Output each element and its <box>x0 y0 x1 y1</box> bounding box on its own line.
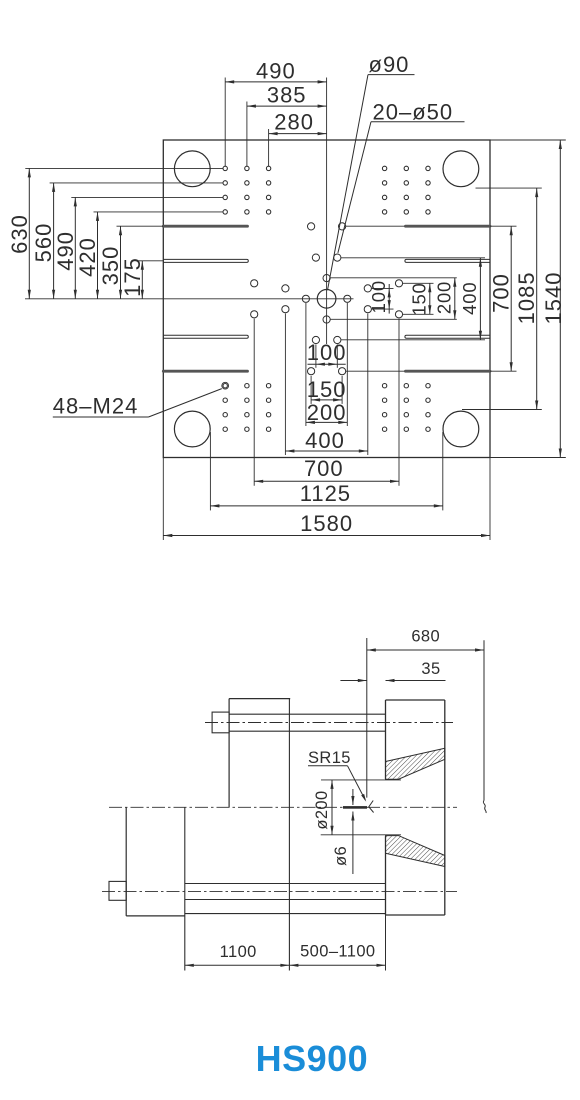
svg-text:175: 175 <box>120 257 145 297</box>
dim 700 bottom <box>254 480 399 482</box>
ejector hole pairs at 350mm <box>308 223 315 230</box>
front face extension to dim <box>385 915 387 971</box>
dim 1540 right <box>559 140 561 458</box>
upper tie-bar nut <box>212 712 229 733</box>
leaders 200 right dim <box>330 277 457 279</box>
tie-bar hole bottom-right <box>443 411 479 447</box>
svg-text:385: 385 <box>267 83 307 108</box>
center hole dia90 <box>317 290 336 309</box>
tie-bar hole top-left <box>174 151 210 187</box>
vertical centerline / extension <box>326 78 328 345</box>
svg-text:420: 420 <box>75 237 100 277</box>
dim 35 <box>340 680 366 682</box>
svg-text:1125: 1125 <box>300 481 351 506</box>
lower tie-bar rod <box>185 883 386 885</box>
dim 175 left <box>141 261 143 299</box>
svg-text:1540: 1540 <box>541 272 566 325</box>
dim 630 left <box>28 168 30 298</box>
dim 1085 right <box>536 188 538 409</box>
row leader y=226.2 <box>117 225 164 227</box>
svg-text:48–M24: 48–M24 <box>53 394 139 419</box>
dim 680 <box>367 649 484 651</box>
nozzle bore section upper (hatched) <box>386 748 445 779</box>
svg-text:150: 150 <box>307 377 347 402</box>
ext line plate bottom right <box>490 457 566 459</box>
row leader y=168.4 <box>25 167 223 169</box>
extension line col3 <box>268 129 270 166</box>
M24 tapped hole symbol (leader target) <box>222 382 229 389</box>
leader SR15 <box>348 766 366 800</box>
row leader y=260.8 <box>138 260 163 262</box>
svg-text:1100: 1100 <box>220 943 257 961</box>
ext line tiebar top right <box>476 187 542 189</box>
svg-text:490: 490 <box>256 59 296 84</box>
svg-text:280: 280 <box>274 110 314 135</box>
T-slot thick left lower <box>163 370 247 373</box>
dim 490 top <box>225 81 326 83</box>
upper tie-bar rod <box>229 713 385 715</box>
svg-text:100: 100 <box>307 340 347 365</box>
dim 200 bottom <box>306 421 347 423</box>
moving platen upper block <box>228 699 230 808</box>
svg-text:700: 700 <box>489 273 514 313</box>
svg-text:100: 100 <box>368 280 389 313</box>
svg-text:1580: 1580 <box>300 511 353 536</box>
T-slot outline left upper <box>163 259 248 262</box>
dim 680 right extension with break hook <box>483 640 485 800</box>
dim 420 left <box>97 212 99 299</box>
nozzle bore section lower (hatched) <box>386 836 445 867</box>
dim dia6 <box>352 789 354 805</box>
leader 20-dia50 <box>338 122 371 253</box>
tie-bar hole top-right <box>443 151 479 187</box>
dim 400 right <box>479 258 481 340</box>
slot connector line lower <box>346 370 405 372</box>
row leader y=182.9 <box>50 182 223 184</box>
dim 150 right <box>429 283 431 314</box>
svg-text:35: 35 <box>421 660 440 678</box>
svg-text:630: 630 <box>7 214 32 254</box>
extension line col1 <box>224 78 226 167</box>
svg-text:400: 400 <box>459 282 480 315</box>
leaders 400 right dim <box>341 257 485 259</box>
ext lines 700 dim <box>253 319 255 486</box>
svg-text:20–ø50: 20–ø50 <box>373 99 454 124</box>
leader 48-M24 <box>149 389 222 417</box>
base bottom edge <box>185 913 386 915</box>
stationary platen side view <box>386 699 445 701</box>
dim 1580 bottom <box>163 535 490 537</box>
dim 280 top <box>269 133 327 135</box>
leader dia90 <box>328 75 369 291</box>
ext lines 1125 dim <box>209 432 211 510</box>
upper tie-bar centerline <box>205 722 453 724</box>
svg-text:680: 680 <box>411 628 440 646</box>
ext lines 200 dim <box>305 303 307 426</box>
row leader y=197.4 <box>71 196 223 198</box>
svg-text:SR15: SR15 <box>308 749 351 767</box>
svg-text:ø90: ø90 <box>369 52 410 77</box>
svg-text:700: 700 <box>304 456 344 481</box>
ejector holes ring 100mm <box>323 275 330 282</box>
lower left block <box>125 807 127 916</box>
dim 560 left <box>53 183 55 299</box>
T-slot outline left lower <box>163 335 248 338</box>
svg-text:500–1100: 500–1100 <box>300 943 375 961</box>
dim 400 bottom <box>285 450 367 452</box>
dim dia200 <box>331 780 333 835</box>
leaders 100 right dim <box>372 287 394 289</box>
T-slot thick left upper <box>163 225 247 228</box>
extension line col2 <box>246 102 248 167</box>
slot connector line upper <box>346 225 405 227</box>
dim 1100 / 500-1100 bottom <box>185 964 290 966</box>
ext lines 1580 dim <box>162 458 164 541</box>
platen front view outline 1580x1540 <box>163 140 490 458</box>
ext line tiebar bottom right <box>462 409 542 411</box>
sprue orifice mark <box>343 806 367 809</box>
ejector hole pairs at 200mm <box>312 254 319 261</box>
ext line slot upper right <box>490 225 517 227</box>
lower tie-bar centerline <box>102 890 457 892</box>
horizontal centerline <box>25 298 354 300</box>
svg-text:200: 200 <box>307 400 347 425</box>
svg-text:400: 400 <box>305 428 345 453</box>
nozzle contact plane extension line <box>366 638 368 798</box>
svg-text:200: 200 <box>434 281 455 314</box>
row leader y=211.9 <box>94 211 223 213</box>
T-slot thick right upper <box>406 225 491 228</box>
T-slot outline right lower <box>405 335 490 338</box>
T-slot thick right lower <box>406 370 491 373</box>
ext line slot lower right <box>490 370 517 372</box>
ext line plate top right <box>490 139 566 141</box>
48-M24 mounting hole grids <box>223 166 227 170</box>
svg-text:ø200: ø200 <box>313 790 331 829</box>
lower tie-bar nut <box>109 881 126 900</box>
ext lines 400 dim <box>284 314 286 456</box>
main centerline side view <box>109 806 457 808</box>
ext lines 150 dim <box>310 376 312 404</box>
ext lines 100 dim <box>315 345 317 368</box>
svg-text:ø6: ø6 <box>332 846 350 866</box>
leaders 150 right dim <box>403 282 434 284</box>
dim 490 left <box>74 197 76 298</box>
svg-text:1085: 1085 <box>514 271 539 324</box>
dim 200 right <box>454 278 456 320</box>
dim 350 left <box>120 226 122 299</box>
svg-text:HS900: HS900 <box>256 1038 369 1079</box>
dim 100 right <box>388 284 390 314</box>
upper block right edge + extension to dim <box>288 699 290 971</box>
lower block right edge + extension to dim <box>184 807 186 970</box>
dim dia200 extension lines <box>321 779 401 781</box>
tie-bar hole bottom-left <box>174 411 210 447</box>
dim 150 bottom <box>311 399 342 401</box>
dim 700 right <box>510 226 512 371</box>
dim 385 top <box>247 105 327 107</box>
dim 100 bottom <box>308 363 346 365</box>
svg-text:150: 150 <box>409 282 430 315</box>
dim 1125 bottom <box>210 505 442 507</box>
T-slot outline right upper <box>405 259 490 262</box>
